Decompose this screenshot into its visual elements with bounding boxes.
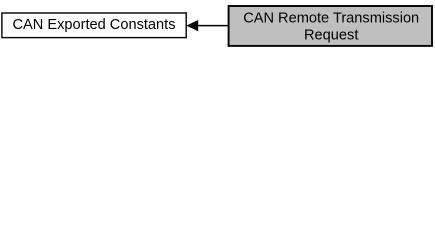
svg-text:Request: Request — [304, 27, 358, 43]
node: CAN Remote Transmission Request — [229, 6, 432, 46]
edge arrowhead — [187, 21, 198, 31]
svg-text:CAN Remote Transmission: CAN Remote Transmission — [243, 10, 419, 26]
wire: edge line — [198, 25, 229, 27]
node: CAN Exported Constants — [2, 13, 186, 38]
svg-text:CAN Exported Constants: CAN Exported Constants — [12, 17, 175, 33]
